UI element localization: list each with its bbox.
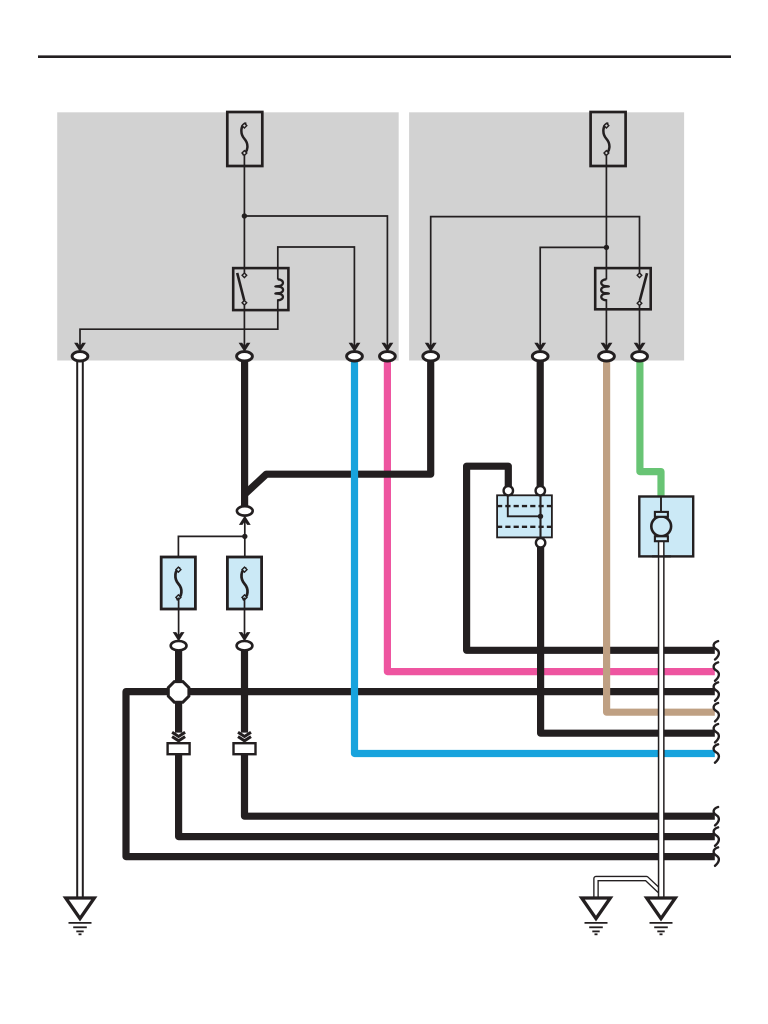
component S1 (switch block with dashed rails) [497,486,552,548]
fusible link FL2 [227,557,261,609]
ground wire W3 (double line from motor M1) [658,540,665,898]
page-link squiggles at wire ends [714,641,719,866]
fusible link FL1 [161,557,195,609]
wire: FL1 to connector oval [178,598,180,640]
relay R1 switch contacts [242,273,247,278]
connector oval under FL1 [171,641,187,650]
wire: fusible link FL1 output down and to page link [175,651,182,733]
wire: node A1 to pink output terminal [244,216,387,348]
header rule [38,55,731,58]
wire: cyan output (to wiper switch, page link) [355,356,715,754]
node A1 (junction dot) [242,213,247,218]
wire: fusible link FL2 output down and to page link [241,651,248,733]
connector oval under FL2 [237,641,253,650]
node A2 (junction dot) [604,245,609,250]
wire: component S1 left terminal loop to page link [467,466,715,650]
noise filter N1 [168,743,190,754]
wire: thick black terminal x=540 to component S1 [537,358,544,487]
relay R2 switch contacts [637,273,642,278]
wire: junction J1 horizontal run with left elbow to page link [126,692,715,857]
motor M1 box bottom border over ground wire [652,555,671,557]
relay R1 coil [275,279,283,300]
relay R1 (left box) [233,268,288,310]
wire: relay R1 coil bottom to terminal at x=80 [80,299,278,348]
arrows into junction block output connectors [75,343,645,351]
wire: relay R1 switch bottom leg [243,303,245,348]
wire: thick black branch from terminal x=430 joining splice [245,358,430,494]
noise filter N2 [234,743,256,754]
relay R2 switch blade [640,273,647,300]
ground G2 (left of motor) [582,898,611,934]
double chevron above noise filter N2 [238,732,251,741]
wire: FL2 to connector oval [244,598,246,640]
splice connector oval (mid) [237,506,253,524]
motor M1 brush caps [655,512,668,517]
ground wire W2 (branch to left ground) [596,879,661,898]
wire: fuse F1 to relay R1 switch top [243,153,245,273]
junction block B1 (left gray box) [57,112,399,360]
wire: green output to wiper motor M1 [640,356,661,497]
wire: relay R2 switch bottom leg [639,303,641,348]
wire: pink output (to rear wiper, page link) [387,356,714,672]
arrow up into splice oval [240,517,250,525]
wire: splice to fusible links [178,517,244,570]
ground G3 (motor) [647,898,676,934]
motor M1 (wiper motor) [639,497,693,557]
relay R2 coil [601,279,609,300]
component S1 terminals [504,486,513,495]
junction J1 (octagon) [168,682,189,703]
wire: fuse F2 to relay R2 coil top [605,153,607,280]
double chevron above noise filter N1 [172,732,185,741]
wire: tan output (to washer motor, page link) [607,356,715,712]
ground G1 (left) [66,898,95,934]
junction block output connector ovals [72,352,647,361]
relay R2 (right box) [595,268,651,309]
ground wire W1 (double line from left box) [76,358,84,898]
wire: relay R1 coil top to cyan output terminal [278,247,355,348]
arrow into FL2 oval [240,633,250,641]
wire: relay R2 coil bottom leg [605,299,607,348]
wire: terminal x=430 to relay R2 switch top [431,217,640,348]
node A3 (junction dot) [242,534,247,539]
wire: node A2 to black output terminal x=540 [540,247,606,348]
fuse F2 (right box) [591,112,626,166]
arrow into FL1 oval [174,633,184,641]
relay R1 switch blade [237,273,244,300]
wire: thick black from relay R1 switch down to splice [241,358,248,506]
fuse F1 (left box) [227,112,262,166]
wire: component S1 bottom to page link [541,546,715,733]
junction block B2 (right gray box) [409,112,684,360]
